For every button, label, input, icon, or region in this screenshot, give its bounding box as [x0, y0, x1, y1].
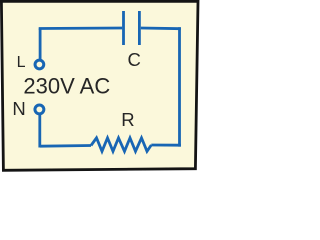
wire: bottom horizontal from bottom-left corner to resistor R left end — [40, 144, 91, 147]
wire: bottom horizontal from resistor R right end to bottom-right corner — [151, 144, 181, 147]
wire: left vertical from node N down to bottom-left corner — [38, 115, 41, 148]
svg-text:C: C — [128, 49, 141, 70]
svg-text:230V AC: 230V AC — [23, 74, 110, 99]
wire: top horizontal from top-left corner to capacitor left plate — [39, 27, 123, 30]
svg-text:R: R — [121, 109, 134, 130]
wire: left vertical from node L up to top-left corner — [39, 29, 42, 60]
wire: right vertical side from top-right corner down to bottom-right corner — [178, 27, 181, 146]
node N: open-circle terminal — [35, 105, 44, 114]
capacitor C (two plates) — [124, 11, 140, 45]
resistor R (zigzag body) — [91, 138, 151, 151]
node L: open-circle terminal — [35, 60, 44, 69]
wire: top horizontal from capacitor right plate to top-right corner — [141, 27, 181, 31]
svg-text:N: N — [12, 98, 25, 119]
svg-text:L: L — [17, 54, 26, 71]
